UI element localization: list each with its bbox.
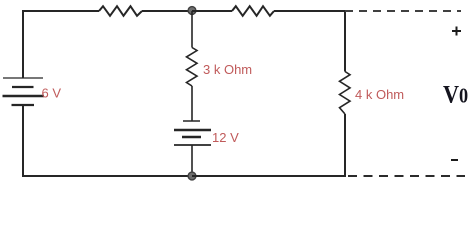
svg-text:3 k Ohm: 3 k Ohm bbox=[203, 62, 252, 77]
svg-text:V0: V0 bbox=[443, 81, 468, 109]
node (bottom junction) bbox=[188, 172, 196, 180]
resistor R3 3k (middle) bbox=[187, 48, 198, 87]
battery V1 6V plate long top bbox=[3, 77, 43, 79]
label V0 bbox=[443, 81, 468, 109]
wire R2 to top-right corner bbox=[274, 11, 345, 71]
battery V2 12V plate long bbox=[174, 129, 211, 132]
wire top node to R3 bbox=[191, 11, 193, 48]
wire battery V2 to bottom node bbox=[191, 145, 193, 176]
wire between R1 and top node bbox=[142, 10, 192, 12]
wire R3 to battery V2 bbox=[191, 86, 193, 121]
wire bottom-right segment bbox=[192, 114, 345, 176]
resistor R2 (top right) bbox=[232, 6, 274, 16]
svg-text:12 V: 12 V bbox=[212, 130, 239, 145]
node (top junction) bbox=[188, 7, 196, 15]
wire left-bottom segment bbox=[23, 105, 192, 176]
- terminal mark bbox=[451, 159, 458, 161]
wire (dashed, to + terminal) bbox=[345, 10, 461, 12]
wire top-left segment bbox=[23, 11, 99, 78]
battery V1 6V plate short bbox=[12, 86, 34, 88]
+ terminal mark bbox=[452, 27, 461, 36]
battery V2 12V plate long bottom bbox=[174, 144, 211, 146]
svg-text:6 V: 6 V bbox=[42, 86, 62, 101]
battery V1 6V plate short bottom bbox=[12, 104, 35, 106]
resistor R1 (top left) bbox=[99, 6, 142, 16]
battery V1 6V plate long bbox=[3, 95, 45, 98]
wire right branch upper bbox=[344, 11, 346, 72]
resistor R4 4k (right) bbox=[340, 72, 351, 115]
svg-text:4 k Ohm: 4 k Ohm bbox=[355, 87, 404, 102]
battery V2 12V plate short top bbox=[183, 120, 200, 122]
battery V2 12V plate short bbox=[182, 136, 201, 139]
wire between top node and R2 bbox=[192, 10, 232, 12]
wire (dashed, to - terminal) bbox=[348, 175, 465, 177]
